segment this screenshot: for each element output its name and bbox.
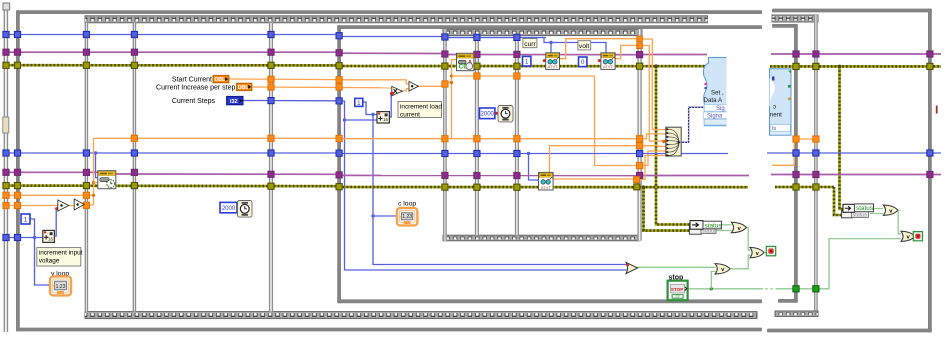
svg-text:2000: 2000 <box>222 206 236 212</box>
svg-text:1: 1 <box>357 100 361 107</box>
svg-text:c loop: c loop <box>398 200 416 207</box>
svg-text:Current Increase per step: Current Increase per step <box>156 84 235 91</box>
svg-text:1: 1 <box>525 59 529 66</box>
svg-text:DBL: DBL <box>238 85 250 91</box>
svg-text:ɔ: ɔ <box>773 104 776 111</box>
svg-text:Sig: Sig <box>716 106 725 112</box>
svg-text:nent: nent <box>770 111 782 118</box>
svg-text:Start Current: Start Current <box>172 77 212 84</box>
svg-text:volt: volt <box>579 43 589 50</box>
svg-text:increment load: increment load <box>400 104 442 111</box>
svg-text:16: 16 <box>48 237 53 242</box>
svg-text:ATVT: ATVT <box>603 64 613 69</box>
svg-text:status: status <box>702 229 717 235</box>
svg-text:1: 1 <box>24 216 28 223</box>
svg-text:ATVT: ATVT <box>548 64 558 69</box>
svg-text:1.23: 1.23 <box>402 214 412 220</box>
svg-text:Data A: Data A <box>704 97 723 104</box>
svg-text:0: 0 <box>581 59 585 66</box>
svg-text:curr: curr <box>524 41 536 48</box>
svg-text:STOP: STOP <box>671 287 683 292</box>
svg-text:current: current <box>400 112 420 119</box>
svg-text:I32: I32 <box>230 99 238 105</box>
svg-text:Set ,: Set , <box>711 90 724 97</box>
svg-text:status: status <box>853 213 868 219</box>
svg-text:1.23: 1.23 <box>56 284 66 290</box>
svg-text:status: status <box>856 205 873 212</box>
svg-text:Signa: Signa <box>707 114 723 120</box>
svg-text:status: status <box>705 222 722 229</box>
svg-text:Current Steps: Current Steps <box>172 98 216 105</box>
svg-text:voltage: voltage <box>39 258 60 265</box>
svg-text:ATVT: ATVT <box>541 185 551 190</box>
svg-text:ls: ls <box>772 126 776 132</box>
svg-text:DBL: DBL <box>214 77 226 83</box>
svg-text:2000: 2000 <box>481 112 495 118</box>
svg-text:16: 16 <box>383 117 388 122</box>
svg-text:increment input: increment input <box>39 250 83 257</box>
